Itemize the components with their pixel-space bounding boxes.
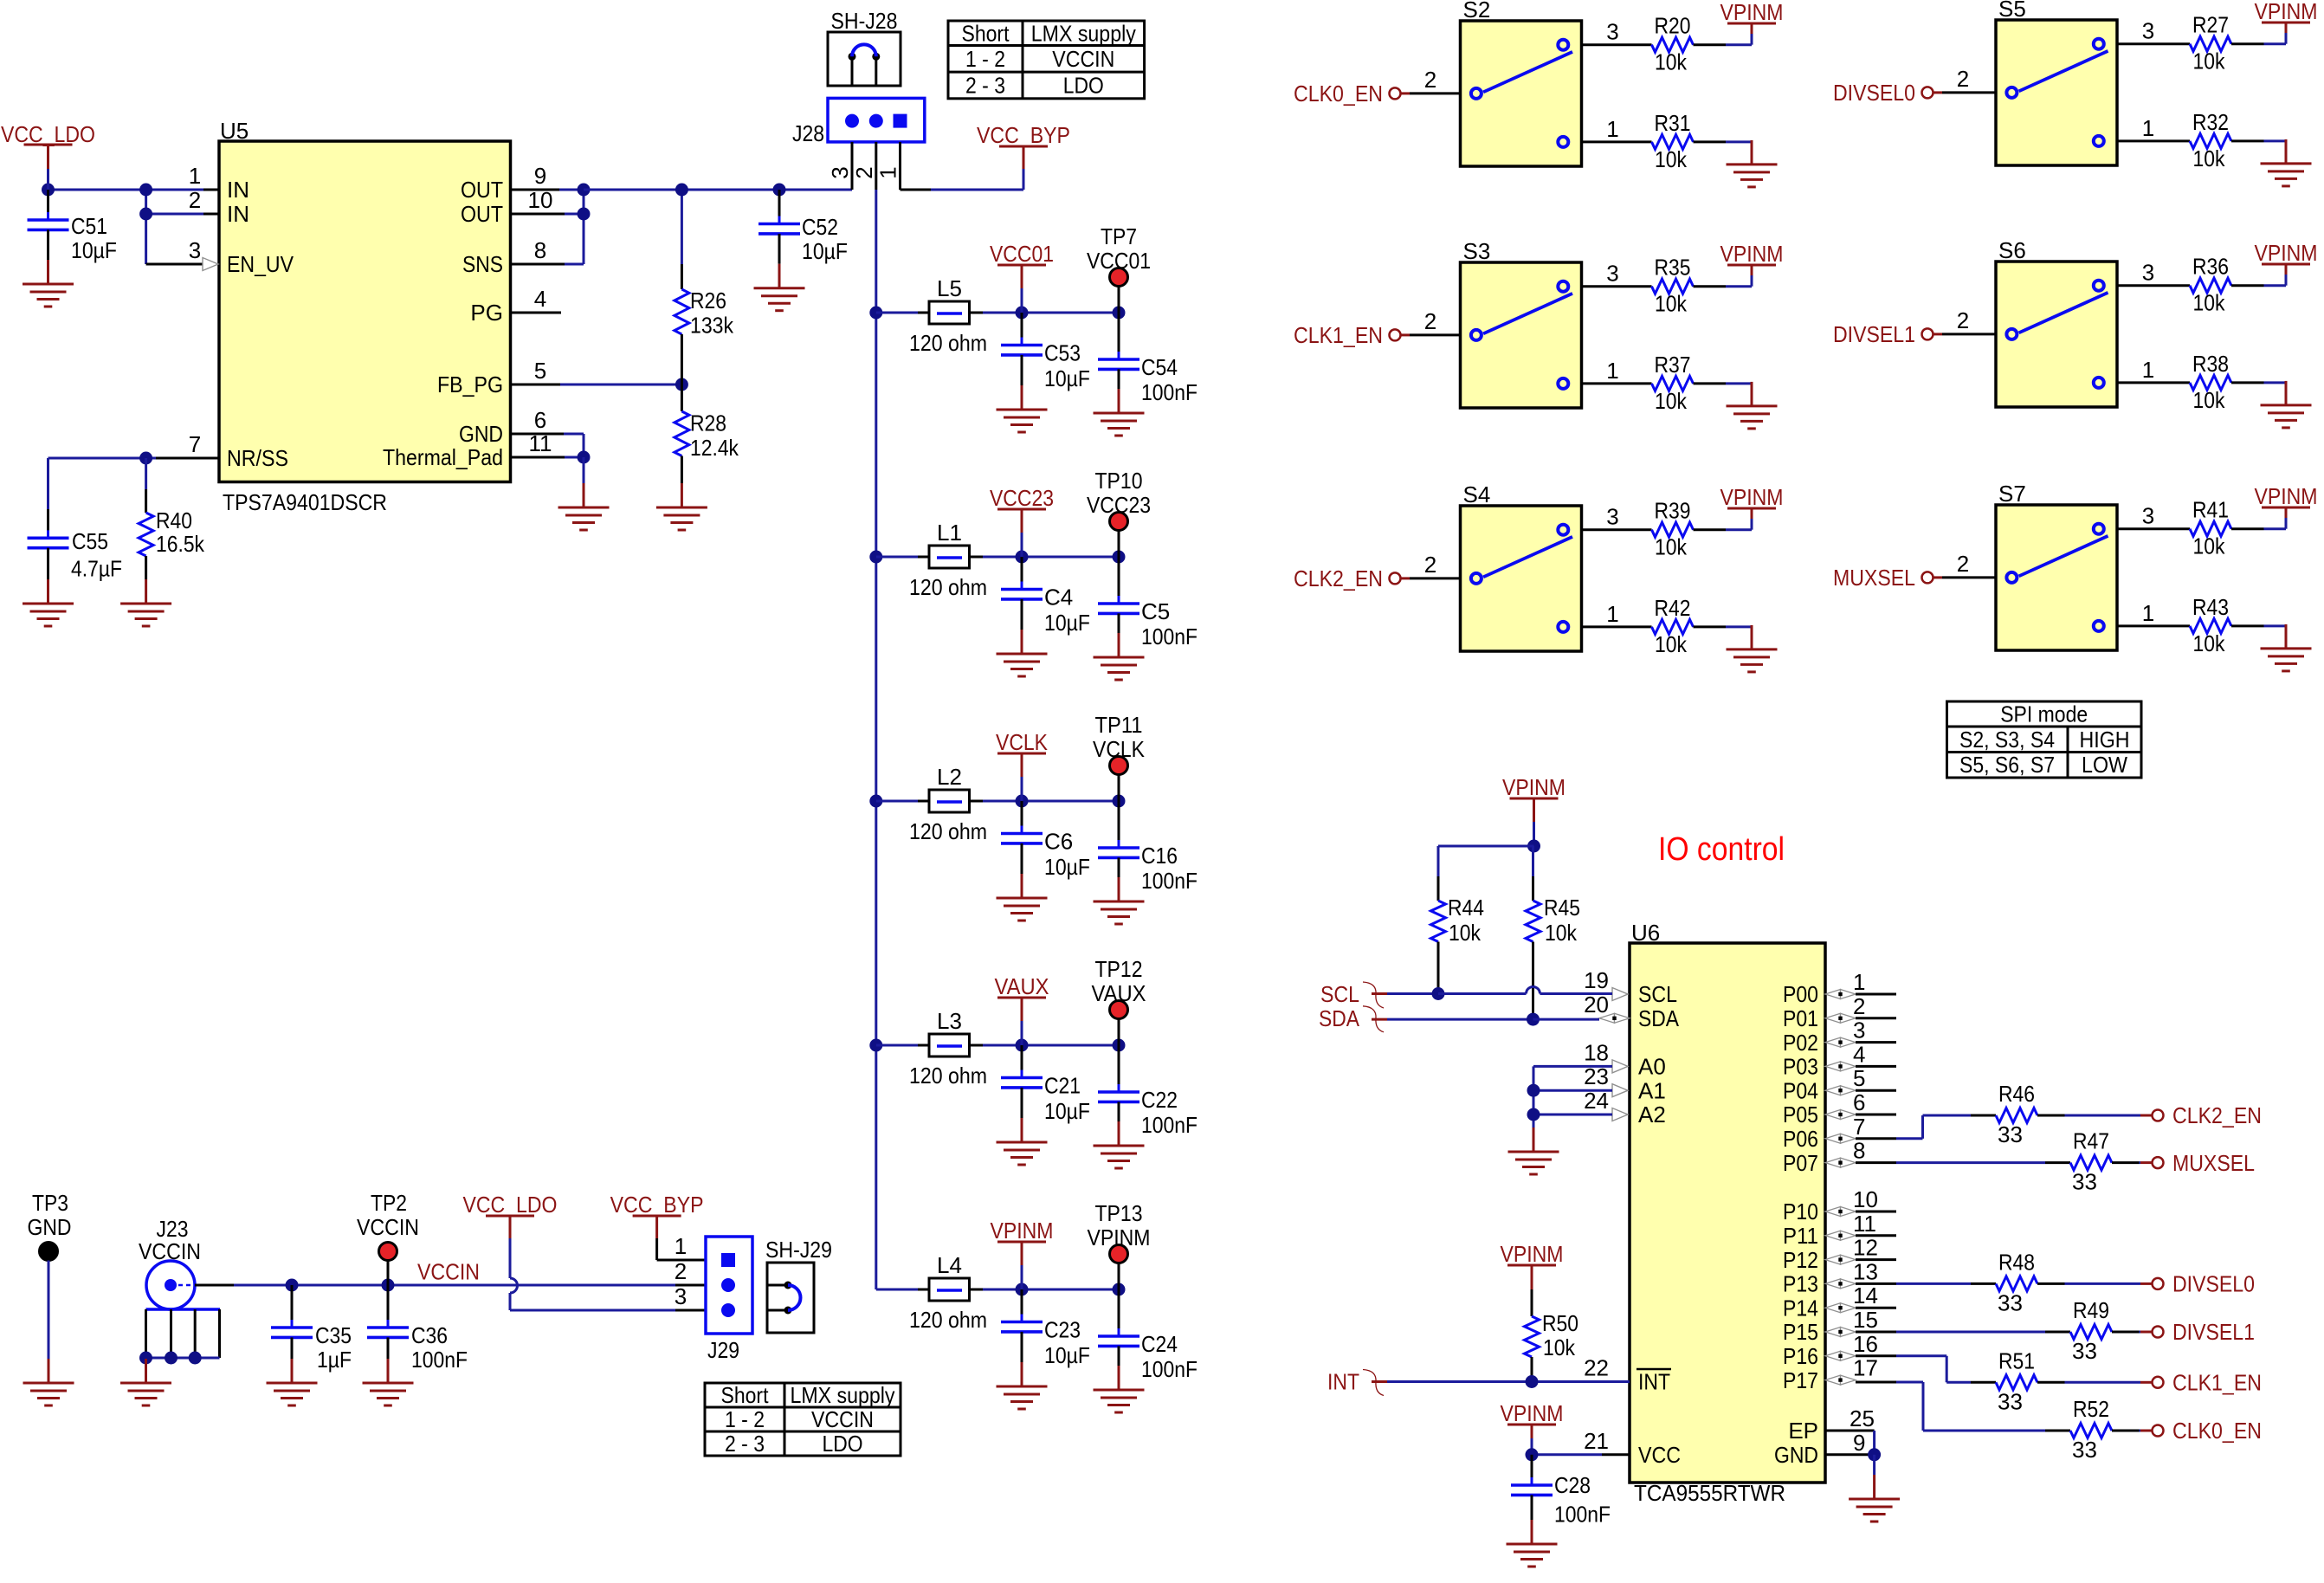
- svg-text:VCCIN: VCCIN: [811, 1406, 874, 1432]
- resistor R28 12.4k: [675, 384, 739, 483]
- ferrite bead L2 120 ohm: [909, 764, 987, 844]
- capacitor C4 10µF: [1001, 557, 1090, 636]
- svg-text:1: 1: [1606, 358, 1618, 384]
- wire VCC_BYP to J29 pin 1: [657, 1259, 706, 1262]
- svg-text:C24: C24: [1141, 1331, 1178, 1357]
- svg-text:3: 3: [2142, 18, 2154, 44]
- wire P06 stub: [1856, 1137, 1896, 1140]
- svg-text:P11: P11: [1783, 1223, 1818, 1249]
- svg-text:3: 3: [2142, 503, 2154, 529]
- test point TP7 VCC01: [1087, 223, 1151, 313]
- svg-text:10k: 10k: [2193, 630, 2226, 656]
- svg-text:10µF: 10µF: [802, 238, 848, 264]
- svg-text:R36: R36: [2192, 254, 2229, 280]
- svg-text:4: 4: [534, 286, 546, 312]
- wire Thermal_Pad pin 11: [511, 451, 591, 484]
- U6 pin names: [1584, 967, 1878, 1468]
- ground under J23: [120, 1359, 171, 1405]
- table SPI mode: [1947, 701, 2142, 779]
- svg-text:R44: R44: [1448, 895, 1484, 921]
- svg-text:14: 14: [1853, 1283, 1878, 1308]
- capacitor C23 10µF: [1001, 1289, 1090, 1368]
- svg-text:1: 1: [875, 166, 901, 178]
- switch S5: [1996, 0, 2117, 165]
- svg-text:R43: R43: [2192, 594, 2229, 620]
- svg-text:FB_PG: FB_PG: [437, 372, 503, 397]
- svg-text:3: 3: [1606, 261, 1618, 287]
- switch S4: [1461, 481, 1582, 651]
- ferrite bead L3 120 ohm: [909, 1008, 987, 1089]
- switch S2: [1461, 0, 1582, 166]
- jumper shunt SH-J28: [828, 8, 901, 86]
- node OUT junctions: [578, 184, 591, 221]
- svg-text:VPINM: VPINM: [2255, 240, 2318, 266]
- svg-text:33: 33: [2072, 1338, 2097, 1364]
- svg-text:19: 19: [1584, 967, 1609, 993]
- svg-text:4: 4: [1853, 1041, 1865, 1067]
- svg-text:10µF: 10µF: [1044, 854, 1090, 880]
- wire PG pin 4: [511, 312, 562, 314]
- svg-text:GND: GND: [459, 421, 503, 447]
- wire P07 stub: [1856, 1161, 1896, 1164]
- svg-text:2: 2: [1424, 67, 1436, 93]
- svg-text:VAUX: VAUX: [995, 973, 1049, 999]
- svg-text:R45: R45: [1544, 895, 1580, 921]
- svg-text:P14: P14: [1783, 1295, 1818, 1321]
- svg-text:L4: L4: [937, 1252, 962, 1278]
- resistor R49 33 / net DIVSEL1: [1896, 1297, 2255, 1364]
- svg-text:P15: P15: [1783, 1319, 1818, 1345]
- svg-text:100nF: 100nF: [1554, 1502, 1611, 1528]
- svg-text:10µF: 10µF: [71, 237, 117, 263]
- resistor R20 10k: [1582, 13, 1753, 75]
- wire J28 pin 3: [851, 142, 854, 190]
- svg-text:S3: S3: [1463, 238, 1491, 264]
- svg-text:TP11: TP11: [1095, 712, 1143, 738]
- wire A0 A1 A2 address pins: [1527, 1066, 1613, 1127]
- net label VPINM: [991, 1218, 1054, 1289]
- svg-text:TP12: TP12: [1095, 956, 1143, 982]
- net label VCLK: [996, 729, 1049, 801]
- svg-text:10k: 10k: [2193, 145, 2226, 171]
- svg-text:100nF: 100nF: [1141, 624, 1198, 649]
- net label VCC_LDO: [1, 121, 95, 190]
- svg-text:VCC_LDO: VCC_LDO: [463, 1192, 558, 1218]
- svg-text:10k: 10k: [2193, 290, 2226, 316]
- svg-text:DIVSEL0: DIVSEL0: [2172, 1271, 2255, 1297]
- net label VCC_LDO (bottom): [463, 1192, 558, 1278]
- svg-text:MUXSEL: MUXSEL: [1833, 565, 1915, 591]
- svg-text:IN: IN: [227, 177, 249, 203]
- resistor R38 10k: [2117, 351, 2286, 413]
- wire P16 stub: [1856, 1354, 1896, 1357]
- svg-text:SPI mode: SPI mode: [2000, 701, 2088, 727]
- IC U5 TPS7A9401DSCR: [189, 118, 553, 515]
- svg-text:L2: L2: [937, 764, 962, 790]
- svg-text:NR/SS: NR/SS: [227, 445, 288, 471]
- svg-text:7: 7: [189, 431, 201, 457]
- table J29 shorting options: [705, 1382, 901, 1457]
- net label SCL: [1320, 981, 1384, 1008]
- resistor R44 10k: [1431, 846, 1485, 994]
- svg-text:2 - 3: 2 - 3: [725, 1431, 765, 1457]
- svg-text:P17: P17: [1783, 1367, 1818, 1393]
- unconnected P pin stubs: [1856, 994, 1896, 1308]
- svg-text:10k: 10k: [1655, 631, 1688, 657]
- ground under C23: [997, 1362, 1048, 1409]
- svg-text:33: 33: [1998, 1121, 2023, 1147]
- svg-text:VCCIN: VCCIN: [1052, 46, 1114, 72]
- svg-text:R35: R35: [1655, 255, 1691, 281]
- title IO control: [1658, 831, 1785, 868]
- svg-text:S6: S6: [1998, 237, 2026, 263]
- svg-text:VCC: VCC: [1638, 1442, 1681, 1468]
- net label VPINM (S5): [2255, 0, 2318, 44]
- svg-text:S2: S2: [1463, 0, 1491, 23]
- svg-text:VPINM: VPINM: [1501, 1400, 1564, 1426]
- resistor R27 10k: [2117, 12, 2286, 74]
- svg-text:33: 33: [1998, 1289, 2023, 1315]
- wire VCCIN net: [195, 1279, 706, 1292]
- svg-text:U6: U6: [1631, 920, 1660, 946]
- svg-text:C53: C53: [1044, 340, 1081, 366]
- ground under R28: [656, 483, 707, 530]
- capacitor C35 1uF: [271, 1285, 352, 1373]
- switch S7: [1996, 481, 2117, 650]
- svg-text:1: 1: [189, 163, 201, 189]
- svg-text:3: 3: [189, 237, 201, 263]
- net label VPINM (R50): [1501, 1241, 1564, 1316]
- svg-text:10µF: 10µF: [1044, 1342, 1090, 1368]
- svg-text:R28: R28: [690, 410, 726, 436]
- svg-text:C4: C4: [1044, 585, 1073, 611]
- ferrite bead L4 120 ohm: [909, 1252, 987, 1333]
- svg-text:S2, S3, S4: S2, S3, S4: [1959, 727, 2055, 753]
- ground under C28: [1507, 1520, 1558, 1567]
- svg-text:2: 2: [851, 166, 877, 178]
- test point TP13 VPINM: [1088, 1200, 1151, 1289]
- svg-text:VPINM: VPINM: [1720, 241, 1784, 267]
- svg-text:L5: L5: [937, 275, 962, 301]
- svg-text:13: 13: [1853, 1258, 1878, 1284]
- svg-text:10k: 10k: [1655, 146, 1688, 172]
- wire VCC23 row: [876, 551, 1126, 564]
- svg-text:SH-J29: SH-J29: [765, 1237, 832, 1263]
- svg-text:10µF: 10µF: [1044, 610, 1090, 636]
- svg-text:C54: C54: [1141, 354, 1178, 380]
- svg-text:15: 15: [1853, 1307, 1878, 1333]
- resistor R43 10k: [2117, 594, 2286, 656]
- svg-text:P06: P06: [1783, 1126, 1818, 1152]
- svg-text:HIGH: HIGH: [2080, 727, 2130, 753]
- svg-text:2: 2: [1957, 307, 1969, 333]
- svg-text:L3: L3: [937, 1008, 962, 1034]
- net label VPINM (S6): [2255, 240, 2318, 286]
- svg-text:C55: C55: [72, 528, 108, 554]
- svg-text:LMX supply: LMX supply: [791, 1382, 895, 1408]
- capacitor C52 10uF: [759, 184, 848, 265]
- net label DIVSEL0: [1833, 66, 1996, 106]
- svg-text:C5: C5: [1141, 598, 1170, 624]
- svg-text:C51: C51: [71, 213, 107, 239]
- svg-text:11: 11: [1853, 1211, 1876, 1237]
- svg-text:120 ohm: 120 ohm: [909, 818, 987, 844]
- svg-text:C52: C52: [802, 214, 838, 240]
- test point TP11 VCLK: [1093, 712, 1146, 801]
- svg-text:SH-J28: SH-J28: [831, 8, 898, 34]
- svg-text:R40: R40: [156, 507, 192, 533]
- svg-text:9: 9: [1853, 1430, 1865, 1456]
- svg-text:16: 16: [1853, 1331, 1878, 1357]
- wire LDO output net: [584, 189, 852, 191]
- table J28 shorting options: [948, 20, 1145, 98]
- ground under C36: [363, 1359, 414, 1405]
- svg-text:R49: R49: [2073, 1297, 2109, 1323]
- svg-text:17: 17: [1853, 1355, 1878, 1381]
- wire P17 stub: [1856, 1381, 1896, 1384]
- svg-text:OUT: OUT: [461, 177, 503, 203]
- svg-text:VPINM: VPINM: [1720, 0, 1784, 25]
- svg-text:VCCIN: VCCIN: [357, 1214, 419, 1240]
- svg-text:DIVSEL0: DIVSEL0: [1833, 80, 1915, 106]
- svg-text:C36: C36: [411, 1322, 448, 1348]
- svg-text:VCC_BYP: VCC_BYP: [610, 1192, 704, 1218]
- svg-text:R46: R46: [1998, 1081, 2035, 1107]
- svg-text:3: 3: [675, 1283, 687, 1309]
- U6 port glyphs: [1599, 988, 1856, 1386]
- svg-text:Short: Short: [962, 20, 1010, 46]
- svg-text:Thermal_Pad: Thermal_Pad: [383, 444, 503, 470]
- svg-text:10µF: 10µF: [1044, 365, 1090, 391]
- svg-text:R20: R20: [1655, 13, 1691, 39]
- svg-text:10k: 10k: [1545, 920, 1578, 946]
- svg-text:120 ohm: 120 ohm: [909, 574, 987, 600]
- resistor R41 10k: [2117, 497, 2286, 559]
- ground under R40: [120, 579, 171, 626]
- capacitor C28 100nF: [1511, 1455, 1611, 1528]
- svg-text:C22: C22: [1141, 1087, 1178, 1113]
- svg-text:22: 22: [1584, 1355, 1609, 1381]
- svg-text:Short: Short: [721, 1382, 770, 1408]
- ground (S4 R42): [1727, 625, 1778, 672]
- resistor R42 10k: [1582, 595, 1753, 657]
- resistor R50 10k: [1525, 1310, 1579, 1381]
- svg-text:R31: R31: [1655, 110, 1691, 136]
- net label VPINM (pullups): [1438, 774, 1565, 853]
- resistor R36 10k: [2117, 254, 2286, 316]
- node rail junction L2: [869, 795, 882, 808]
- svg-text:3: 3: [1606, 504, 1618, 530]
- resistor R35 10k: [1582, 255, 1753, 317]
- svg-text:10µF: 10µF: [1044, 1098, 1090, 1124]
- resistor R31 10k: [1582, 110, 1753, 172]
- resistor R26 133k: [675, 184, 734, 385]
- svg-text:33: 33: [2072, 1437, 2097, 1463]
- svg-text:TCA9555RTWR: TCA9555RTWR: [1634, 1480, 1785, 1506]
- svg-text:S5, S6, S7: S5, S6, S7: [1959, 752, 2055, 778]
- svg-text:CLK1_EN: CLK1_EN: [1294, 322, 1383, 348]
- ground under C22: [1094, 1121, 1145, 1168]
- net label SDA: [1319, 1005, 1384, 1032]
- svg-text:R32: R32: [2192, 109, 2229, 135]
- svg-text:INT: INT: [1327, 1369, 1359, 1395]
- svg-text:VCC23: VCC23: [990, 485, 1054, 511]
- connector J28: [792, 98, 925, 178]
- svg-text:VCLK: VCLK: [996, 729, 1049, 755]
- svg-text:16.5k: 16.5k: [156, 531, 205, 557]
- net label VCC_BYP (bottom): [610, 1192, 704, 1260]
- svg-text:4.7µF: 4.7µF: [71, 556, 122, 582]
- ground under C24: [1094, 1366, 1145, 1412]
- svg-text:5: 5: [1853, 1065, 1865, 1091]
- test point TP2 VCCIN: [357, 1190, 419, 1285]
- wire FB_PG pin 5: [511, 378, 688, 391]
- svg-text:1: 1: [2142, 600, 2154, 626]
- svg-text:100nF: 100nF: [411, 1347, 468, 1373]
- ground (S5 R32): [2261, 139, 2312, 186]
- svg-text:INT: INT: [1638, 1369, 1670, 1395]
- node rail junction L5: [869, 307, 882, 320]
- svg-text:CLK0_EN: CLK0_EN: [2172, 1418, 2262, 1444]
- node rail junction L3: [869, 1039, 882, 1052]
- node IN junctions: [42, 184, 152, 221]
- svg-text:P02: P02: [1783, 1030, 1818, 1056]
- wire VCC pin 21: [1526, 1448, 1630, 1461]
- test point TP3 GND: [28, 1190, 72, 1359]
- pin 2 IN wire: [146, 190, 219, 264]
- wire GND pin 6: [511, 434, 584, 457]
- ground under pin 11: [558, 483, 610, 530]
- svg-text:A1: A1: [1638, 1077, 1666, 1103]
- svg-text:120 ohm: 120 ohm: [909, 1307, 987, 1333]
- svg-text:10k: 10k: [1655, 49, 1688, 75]
- net label MUXSEL: [1833, 551, 1996, 591]
- svg-text:LOW: LOW: [2082, 752, 2127, 778]
- resistor R52 33 / net CLK0_EN: [1896, 1382, 2262, 1463]
- wire J28 pin 1 to VCC_BYP: [901, 142, 1024, 190]
- svg-text:10k: 10k: [1655, 291, 1688, 317]
- wire SNS pin 8: [511, 190, 584, 264]
- net label VCC_BYP: [977, 122, 1070, 169]
- svg-text:P01: P01: [1783, 1005, 1818, 1031]
- test point TP10 VCC23: [1087, 468, 1151, 557]
- svg-text:10k: 10k: [2193, 387, 2226, 413]
- capacitor C54 100nF: [1098, 313, 1198, 405]
- resistor R40 16.5k: [139, 458, 205, 579]
- svg-text:1µF: 1µF: [317, 1347, 352, 1373]
- net label INT: [1327, 1369, 1384, 1396]
- svg-text:A2: A2: [1638, 1102, 1666, 1127]
- svg-text:IN: IN: [227, 201, 249, 227]
- svg-text:1 - 2: 1 - 2: [965, 46, 1005, 72]
- svg-text:100nF: 100nF: [1141, 1112, 1198, 1138]
- ground under C21: [997, 1118, 1048, 1165]
- svg-text:1 - 2: 1 - 2: [725, 1406, 765, 1432]
- svg-text:TP7: TP7: [1101, 223, 1137, 249]
- svg-text:20: 20: [1584, 992, 1609, 1018]
- svg-text:S4: S4: [1463, 481, 1491, 507]
- svg-text:100nF: 100nF: [1141, 868, 1198, 894]
- capacitor C55 4.7uF: [28, 458, 123, 582]
- svg-text:TP2: TP2: [371, 1190, 407, 1216]
- net label VPINM (S3): [1720, 241, 1784, 287]
- resistor R32 10k: [2117, 109, 2286, 171]
- test point TP12 VAUX: [1092, 956, 1146, 1045]
- svg-text:CLK0_EN: CLK0_EN: [1294, 81, 1383, 107]
- wire P13 stub: [1856, 1283, 1896, 1285]
- svg-text:R41: R41: [2192, 497, 2229, 523]
- wire GND pin 9: [1825, 1448, 1881, 1475]
- svg-text:MUXSEL: MUXSEL: [2172, 1150, 2255, 1176]
- svg-text:S7: S7: [1998, 481, 2026, 507]
- svg-text:120 ohm: 120 ohm: [909, 1063, 987, 1089]
- svg-text:A0: A0: [1638, 1054, 1666, 1080]
- svg-text:U5: U5: [220, 118, 249, 144]
- svg-text:VCCIN: VCCIN: [417, 1259, 480, 1285]
- svg-text:33: 33: [2072, 1169, 2097, 1195]
- svg-text:VCC01: VCC01: [990, 241, 1054, 267]
- svg-text:J28: J28: [792, 120, 824, 146]
- wire OUT pin 9: [511, 189, 584, 191]
- svg-text:EN_UV: EN_UV: [227, 251, 294, 277]
- svg-text:18: 18: [1584, 1039, 1609, 1065]
- svg-text:R27: R27: [2192, 12, 2229, 38]
- capacitor C22 100nF: [1098, 1045, 1198, 1138]
- svg-text:CLK1_EN: CLK1_EN: [2172, 1370, 2262, 1396]
- svg-text:12: 12: [1853, 1235, 1878, 1261]
- svg-text:SNS: SNS: [462, 251, 503, 277]
- capacitor C53 10µF: [1001, 313, 1090, 391]
- svg-text:J29: J29: [707, 1337, 739, 1363]
- svg-text:TP13: TP13: [1095, 1200, 1143, 1226]
- svg-text:100nF: 100nF: [1141, 379, 1198, 405]
- capacitor C16 100nF: [1098, 801, 1198, 894]
- ground (S3 R37): [1727, 382, 1778, 429]
- svg-text:P07: P07: [1783, 1150, 1818, 1176]
- resistor R46 33 / net CLK2_EN: [1896, 1081, 2262, 1147]
- wire EP pin 25: [1825, 1431, 1875, 1455]
- svg-text:1: 1: [1606, 116, 1618, 142]
- ground under C53: [997, 385, 1048, 432]
- svg-text:10k: 10k: [1449, 920, 1482, 946]
- svg-text:6: 6: [1853, 1089, 1865, 1115]
- svg-text:P04: P04: [1783, 1077, 1818, 1103]
- svg-text:VPINM: VPINM: [1501, 1241, 1564, 1267]
- svg-text:P12: P12: [1783, 1247, 1818, 1273]
- svg-text:1: 1: [2142, 115, 2154, 141]
- pin 1 IN wire: [48, 189, 220, 191]
- svg-text:10k: 10k: [2193, 48, 2226, 74]
- svg-text:8: 8: [534, 237, 546, 263]
- svg-text:VPINM: VPINM: [2255, 483, 2318, 509]
- svg-text:P16: P16: [1783, 1343, 1818, 1369]
- capacitor C36 100nF: [367, 1285, 468, 1373]
- svg-text:10k: 10k: [1655, 534, 1688, 560]
- ground under C6: [997, 874, 1048, 921]
- svg-text:DIVSEL1: DIVSEL1: [1833, 321, 1915, 347]
- svg-text:12.4k: 12.4k: [690, 435, 739, 461]
- svg-text:3: 3: [1853, 1018, 1865, 1043]
- switch S3: [1461, 238, 1582, 408]
- ground under C54: [1094, 389, 1145, 436]
- ferrite bead L1 120 ohm: [909, 520, 987, 600]
- wire VCC_LDO to J29 pin 3 (hop over VCCIN): [510, 1278, 706, 1310]
- switch S6: [1996, 237, 2117, 407]
- svg-text:VCC_BYP: VCC_BYP: [977, 122, 1070, 148]
- svg-text:L1: L1: [937, 520, 962, 546]
- svg-text:LDO: LDO: [1063, 73, 1104, 99]
- net label VCC01: [990, 241, 1054, 313]
